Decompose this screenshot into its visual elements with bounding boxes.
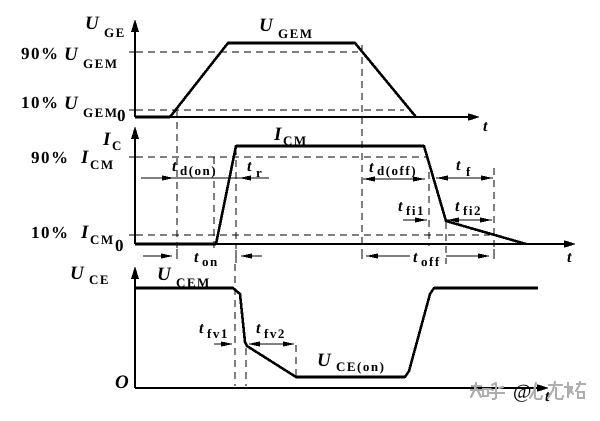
svg-text:10%: 10%: [21, 93, 60, 112]
label 10% I_CM (left): [31, 222, 115, 247]
label O (bottom chart origin): [115, 372, 129, 393]
dimension t_fi1: left outside arrow: [403, 219, 427, 221]
svg-text:I: I: [80, 222, 89, 243]
svg-text:U: U: [157, 264, 172, 285]
dimension t_on below axis: outside arrows with boundary ticks: [143, 255, 161, 257]
svg-text:U: U: [317, 350, 332, 371]
svg-text:GEM: GEM: [83, 105, 119, 120]
dashed vertical at I_C fall kink: [445, 222, 447, 264]
label t (middle chart): [567, 249, 572, 266]
I_C waveform: [135, 146, 526, 244]
svg-text:d(off): d(off): [377, 163, 417, 178]
dimension t_fv2: [248, 341, 260, 346]
label t_r: [247, 158, 263, 180]
x-axis arrowhead (bottom chart): [537, 384, 549, 392]
label I_C: [102, 129, 123, 153]
svg-text:t: t: [567, 249, 572, 266]
label t_fi2: [455, 198, 482, 218]
svg-text:0: 0: [115, 236, 125, 255]
label t (top chart): [483, 118, 488, 135]
svg-text:t: t: [398, 198, 403, 215]
tick 90% U_GEM: [129, 51, 136, 53]
svg-text:U: U: [259, 15, 274, 36]
svg-text:on: on: [202, 254, 219, 269]
dimension t_d(on): line with outside arrows: [141, 177, 269, 179]
y-axis I_C: [134, 135, 136, 244]
dimension t_d(off): inside arrows: [363, 178, 425, 180]
svg-text:C: C: [112, 138, 123, 153]
svg-text:O: O: [115, 372, 129, 393]
dashed level 10% I_CM: [136, 234, 490, 236]
x-axis arrowhead (top chart): [468, 113, 480, 121]
dashed vertical at I_C 10% rise crossing: [213, 157, 215, 248]
label 90% I_CM (left): [31, 147, 115, 172]
y-axis arrowhead (U_CE): [131, 266, 139, 279]
y-axis U_GE: [134, 28, 136, 117]
svg-text:U: U: [64, 93, 79, 114]
label U_CEM: [157, 264, 211, 290]
svg-text:I: I: [273, 124, 282, 145]
x-axis t (bottom chart): [135, 387, 537, 389]
label 90% U_GEM (left): [21, 44, 119, 71]
y-axis U_CE: [134, 275, 136, 388]
svg-text:t: t: [172, 158, 177, 175]
label t_fi1: [398, 198, 425, 218]
svg-text:t: t: [455, 198, 460, 215]
U_GE waveform: [135, 43, 416, 117]
svg-text:CM: CM: [90, 232, 115, 247]
svg-text:d(on): d(on): [180, 163, 217, 178]
dashed vertical at I_C 90% fall crossing: [428, 160, 430, 246]
x-axis t (top chart): [135, 116, 470, 118]
svg-text:fi1: fi1: [406, 203, 425, 218]
svg-text:GEM: GEM: [83, 56, 119, 71]
label 0 (middle chart origin): [115, 236, 125, 255]
y-axis arrowhead: [131, 19, 139, 32]
y-axis arrowhead (I_C): [131, 126, 139, 139]
label t_d(off): [369, 159, 417, 178]
t_on left boundary tick: [176, 249, 178, 259]
svg-text:t: t: [194, 249, 199, 266]
tick 10% U_GEM: [129, 109, 136, 111]
svg-text:U: U: [85, 13, 100, 34]
label t (bottom chart): [545, 388, 550, 405]
svg-text:GEM: GEM: [278, 26, 314, 41]
dashed level 10% U_GEM: [136, 109, 404, 111]
label 0 (top chart origin): [117, 106, 127, 125]
dashed vertical at U_CE(on) reach: [295, 345, 297, 376]
watermark 知乎 @九方格: [471, 382, 585, 399]
dashed vertical at I_C tail 10%: [493, 168, 495, 248]
label t_off: [413, 249, 441, 269]
svg-text:t: t: [369, 159, 374, 176]
label I_CM (on waveform top): [273, 124, 308, 148]
svg-text:I: I: [102, 129, 111, 150]
svg-text:90%: 90%: [21, 44, 60, 63]
label 10% U_GEM (left): [21, 93, 119, 120]
dimension t_f: [436, 177, 493, 179]
dashed vertical at U_CE fall start: [234, 264, 236, 386]
dashed vertical at U_GE 90% fall crossing: [361, 45, 363, 248]
svg-text:t: t: [456, 157, 461, 174]
svg-text:@: @: [513, 381, 531, 403]
svg-text:GE: GE: [104, 25, 126, 40]
svg-text:CE(on): CE(on): [336, 359, 385, 374]
svg-text:r: r: [256, 165, 263, 180]
label t_fv1: [199, 320, 229, 341]
svg-text:t: t: [256, 320, 261, 337]
svg-text:10%: 10%: [31, 223, 70, 242]
dashed level 90% I_CM: [136, 156, 427, 158]
label U_CE(on): [317, 350, 385, 374]
svg-text:f: f: [466, 164, 472, 179]
label t_d(on): [172, 158, 217, 178]
svg-text:I: I: [80, 147, 89, 168]
label t_f: [456, 157, 472, 179]
dashed vertical at U_CE fall kink: [245, 348, 247, 386]
dashed vertical at U_GE 10% rise crossing: [176, 110, 178, 248]
label U_CE: [70, 263, 110, 287]
dimension t_fv1: [214, 343, 222, 345]
dimension t_off below axis: [361, 249, 363, 259]
x-axis arrowhead (middle chart): [564, 240, 576, 248]
svg-text:0: 0: [117, 106, 127, 125]
svg-text:t: t: [247, 158, 252, 175]
svg-text:U: U: [70, 263, 85, 284]
x-axis t (middle chart): [135, 243, 564, 245]
svg-text:fi2: fi2: [463, 203, 482, 218]
svg-text:CM: CM: [90, 157, 115, 172]
svg-text:t: t: [199, 320, 204, 337]
svg-text:fv1: fv1: [207, 326, 229, 341]
U_CE waveform: [135, 288, 538, 377]
dashed level 90% U_GEM: [136, 51, 358, 53]
svg-text:CEM: CEM: [176, 275, 211, 290]
label t_fv2: [256, 320, 286, 341]
tick 10% I_CM: [129, 234, 136, 236]
svg-text:CE: CE: [89, 272, 110, 287]
svg-text:fv2: fv2: [264, 326, 286, 341]
dashed vertical at I_C rise top corner: [235, 148, 237, 249]
label U_GE: [85, 13, 126, 40]
svg-text:U: U: [64, 44, 79, 65]
svg-text:CM: CM: [283, 133, 308, 148]
t_on right boundary tick: [235, 250, 237, 263]
label t_on: [194, 249, 219, 269]
svg-text:off: off: [421, 254, 441, 269]
dimension t_fi2: [447, 219, 492, 221]
svg-text:90%: 90%: [31, 148, 70, 167]
label U_GEM (on waveform top): [259, 15, 314, 41]
tick 90% I_CM: [129, 156, 136, 158]
svg-text:t: t: [413, 249, 418, 266]
svg-text:t: t: [483, 118, 488, 135]
